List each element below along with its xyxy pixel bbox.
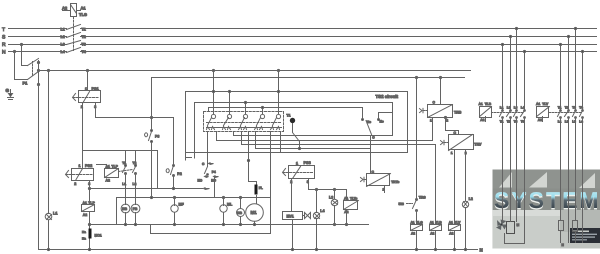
motor DB	[121, 204, 130, 224]
svg-text:TLP: TLP	[112, 165, 119, 169]
wire bus R	[9, 44, 597, 46]
svg-text:A2: A2	[449, 232, 453, 236]
junctions bottom rail N	[47, 248, 49, 250]
svg-text:1: 1	[451, 151, 453, 155]
logo watermark SYSTEM	[493, 170, 600, 249]
svg-text:2: 2	[74, 182, 76, 186]
svg-text:L3: L3	[61, 43, 65, 47]
wire strip descender 4 and run to TLB coil	[242, 132, 436, 225]
wire PS1 pin3 to P3/P2	[96, 104, 174, 165]
svg-text:T2: T2	[82, 35, 86, 39]
svg-text:L4: L4	[521, 106, 525, 110]
svg-text:TLP: TLP	[88, 201, 95, 205]
junctions motor box top	[150, 196, 152, 198]
lamp L4	[313, 190, 324, 250]
svg-text:T4: T4	[82, 50, 86, 54]
svg-text:A1: A1	[83, 201, 87, 205]
changeover switch TS2	[362, 113, 393, 149]
svg-text:A1: A1	[536, 102, 540, 106]
timer relay TRTs	[361, 149, 400, 193]
wire lamp L1 drop	[48, 71, 50, 250]
enclosure box motors	[117, 198, 271, 234]
wire TRS drop	[416, 78, 418, 199]
contactor TLV contact 1	[558, 43, 562, 220]
wire PS2 pin3	[89, 181, 91, 189]
svg-text:N: N	[480, 247, 483, 252]
svg-text:536: 536	[399, 202, 405, 206]
svg-text:PS2: PS2	[85, 164, 92, 168]
wire strip descender 6 and run to TRTs	[256, 132, 371, 149]
pressure switch PS1	[73, 71, 101, 109]
junctions on wire B	[415, 76, 417, 78]
svg-text:TLG: TLG	[79, 12, 87, 17]
svg-text:A1: A1	[344, 196, 348, 200]
svg-text:M: M	[517, 223, 520, 227]
svg-text:FL: FL	[259, 186, 263, 190]
svg-text:TLB: TLB	[436, 221, 443, 225]
terminal 4	[255, 114, 265, 129]
relay coil TLV bottom	[449, 151, 462, 250]
contactor TLG coil	[62, 4, 87, 18]
svg-text:TLTs: TLTs	[350, 196, 358, 200]
lamp L1	[45, 212, 57, 220]
svg-text:A2: A2	[538, 118, 542, 122]
svg-text:TLV: TLV	[542, 102, 549, 106]
svg-text:PS1: PS1	[92, 87, 99, 91]
svg-text:P3: P3	[155, 135, 159, 139]
svg-text:A1: A1	[479, 102, 483, 106]
wire drop to terminal 2	[229, 92, 231, 115]
wire route P2 bottom to P4	[158, 188, 203, 190]
contactor TLG contact pole L4-T4	[61, 48, 86, 55]
svg-text:L1: L1	[500, 106, 504, 110]
svg-text:SYSTEM: SYSTEM	[494, 187, 600, 213]
TS2 circuit box	[186, 92, 408, 153]
svg-text:MC1: MC1	[95, 233, 102, 237]
svg-text:T1: T1	[82, 27, 86, 31]
svg-text:NO: NO	[198, 179, 203, 183]
svg-text:DB: DB	[237, 211, 242, 215]
svg-text:ML: ML	[227, 203, 233, 207]
svg-text:EV1: EV1	[287, 215, 294, 219]
relay coil TLB bottom	[430, 221, 443, 250]
svg-text:L2: L2	[133, 182, 137, 186]
svg-text:L2: L2	[61, 35, 65, 39]
wire strip descender 5 to fuse FL	[249, 132, 257, 185]
svg-text:T3: T3	[82, 43, 86, 47]
svg-text:A1: A1	[430, 221, 434, 225]
svg-text:L3: L3	[514, 106, 518, 110]
svg-text:PS3: PS3	[304, 161, 311, 165]
junction on R	[20, 43, 22, 45]
wire drop to terminal 1	[213, 71, 215, 115]
svg-text:2: 2	[446, 119, 448, 123]
svg-text:TLB: TLB	[485, 102, 492, 106]
wire PS3 pin2 to EV1	[291, 179, 293, 212]
ground G	[6, 88, 14, 100]
wire PS1 pin2 down to PS2	[82, 104, 84, 169]
svg-text:A2: A2	[480, 118, 484, 122]
svg-text:T1: T1	[500, 119, 504, 123]
contactor TLV contact 2	[565, 35, 570, 242]
svg-text:TLV: TLV	[455, 221, 462, 225]
junction on N	[13, 50, 15, 52]
svg-text:Na: Na	[82, 230, 86, 234]
contactor TLV contact 4	[579, 50, 583, 242]
svg-text:1: 1	[79, 164, 81, 168]
mechanical link TLP aux	[119, 170, 133, 172]
contactor TLB coil	[479, 102, 492, 122]
buzzer MC1	[82, 229, 102, 241]
terminal 2	[223, 114, 232, 129]
svg-text:L2: L2	[507, 106, 511, 110]
junctions bottom rail	[124, 223, 126, 225]
svg-text:T1: T1	[122, 161, 126, 165]
svg-text:NC: NC	[211, 179, 216, 183]
timer contact TRS	[399, 195, 427, 224]
svg-text:P4: P4	[212, 170, 216, 174]
switch P3	[145, 130, 160, 143]
wire contact rail in strip	[207, 127, 282, 129]
contactor TLB contact 3	[514, 27, 518, 221]
svg-text:A2: A2	[106, 179, 110, 183]
svg-text:L1: L1	[558, 119, 562, 123]
wire bus S	[9, 36, 597, 38]
svg-text:L2: L2	[469, 197, 473, 201]
svg-text:C: C	[433, 100, 436, 104]
pressure switch PS2	[66, 164, 94, 186]
wire strip descender 1	[207, 132, 209, 167]
relay coil TLTs	[344, 190, 359, 225]
wire bottom rail N	[39, 249, 478, 251]
contactor contact T2-L2	[133, 151, 137, 205]
svg-text:L1: L1	[61, 27, 65, 31]
svg-text:A2: A2	[83, 213, 87, 217]
pressure switch PS3	[283, 161, 315, 184]
wire strip descender 7	[270, 132, 272, 234]
svg-text:A1: A1	[449, 221, 453, 225]
svg-text:MF: MF	[179, 203, 185, 207]
overload element 1	[559, 221, 564, 243]
wire P3 vertical	[151, 78, 153, 198]
svg-text:TLG: TLG	[416, 221, 423, 225]
contactor TLV contact 3	[572, 27, 576, 220]
svg-text:PB: PB	[133, 207, 138, 211]
wire long horizontal A	[39, 70, 471, 72]
motor DB small	[237, 198, 245, 225]
svg-text:L1: L1	[122, 182, 126, 186]
terminal 3	[239, 114, 248, 129]
wire P1 to bottom	[38, 61, 40, 250]
wire route around PS2 cluster	[83, 151, 158, 189]
motor ML	[220, 198, 233, 225]
relay contact TLP aux	[97, 165, 119, 183]
wire strip descender 3 and run	[234, 132, 393, 136]
motor M1	[246, 204, 264, 225]
svg-text:C: C	[202, 162, 205, 166]
lamp L2	[462, 151, 473, 250]
contactor TLB contact 2	[507, 35, 512, 221]
svg-text:S: S	[2, 34, 6, 40]
svg-text:L1: L1	[53, 212, 57, 216]
fan icon	[496, 220, 507, 231]
svg-text:No: No	[380, 120, 384, 124]
contactor contact T1-L1	[122, 151, 126, 205]
svg-text:T4: T4	[579, 106, 583, 110]
timer switch P4 cluster	[198, 162, 219, 197]
svg-text:R: R	[2, 42, 6, 48]
svg-text:A2: A2	[430, 232, 434, 236]
switch P1 blades	[28, 59, 39, 80]
svg-text:Na: Na	[82, 237, 86, 241]
svg-text:TRTs: TRTs	[391, 180, 399, 184]
svg-text:T2: T2	[565, 106, 569, 110]
svg-text:T: T	[2, 27, 5, 33]
wire U loop motor left	[505, 222, 525, 244]
svg-text:L4: L4	[61, 50, 65, 54]
motor box in logo	[507, 222, 515, 234]
svg-text:M1: M1	[251, 210, 258, 215]
svg-text:A2: A2	[411, 232, 415, 236]
svg-text:TRS: TRS	[419, 195, 427, 199]
wire strip descender 8	[280, 132, 282, 153]
switch P1 pole 2 feed	[15, 52, 28, 80]
solenoid valve EV1	[283, 212, 311, 250]
svg-text:A1: A1	[81, 6, 87, 11]
switch P1 contacts	[37, 61, 39, 63]
timer relay TRV	[441, 131, 483, 155]
wire bottom rail under motors	[90, 224, 369, 226]
wire drop to terminal 5	[278, 71, 280, 115]
wire long horizontal B	[152, 77, 465, 79]
switch P2	[166, 165, 182, 189]
timer relay TRB	[420, 78, 462, 135]
contactor TLG contact pole L1-T1	[61, 25, 86, 32]
svg-text:T1: T1	[287, 114, 291, 118]
svg-text:TRB: TRB	[454, 110, 462, 114]
svg-text:T3: T3	[572, 106, 576, 110]
svg-text:L4: L4	[320, 209, 324, 213]
svg-text:1: 1	[296, 162, 298, 166]
fuse FL	[255, 185, 263, 204]
motor MF	[171, 198, 185, 225]
wire drop to terminal 3	[245, 103, 247, 115]
svg-text:1: 1	[85, 87, 87, 91]
relay coil TLG bottom	[411, 221, 424, 250]
inner box 3	[209, 108, 363, 119]
overload element 2	[573, 221, 578, 243]
svg-text:P1: P1	[23, 81, 29, 86]
svg-text:A1: A1	[106, 165, 110, 169]
wire bus T	[9, 28, 597, 30]
svg-text:A1: A1	[411, 221, 415, 225]
wire stubs below TS2 left	[186, 153, 195, 161]
wire bus N	[9, 51, 597, 53]
relay coil TLP	[82, 189, 96, 250]
svg-text:T2: T2	[133, 161, 137, 165]
mechanical link TLB	[492, 112, 525, 114]
switch P1 pole 1 feed	[22, 45, 28, 66]
svg-text:P2: P2	[177, 172, 181, 176]
svg-text:TRV: TRV	[474, 142, 482, 146]
wire PS3 pin3 run	[309, 179, 347, 190]
contactor TLB contact 4	[521, 50, 526, 221]
terminal strip TS1 dashed box	[204, 112, 284, 132]
svg-text:G: G	[6, 88, 10, 93]
svg-text:N: N	[2, 50, 6, 56]
contactor TLG contact pole L3-T3	[61, 41, 86, 47]
inner box 2	[195, 103, 393, 153]
svg-text:C: C	[372, 136, 375, 140]
svg-text:T1: T1	[558, 106, 562, 110]
lamp L3	[329, 190, 338, 225]
mechanical link TLG	[73, 17, 75, 51]
wire drop to terminal 4	[262, 108, 264, 115]
svg-text:T3: T3	[514, 119, 518, 123]
contactor TLV coil	[536, 102, 550, 122]
contactor TLG contact pole L2-T2	[61, 33, 86, 39]
node T1	[287, 114, 300, 149]
terminal 1	[207, 114, 216, 129]
junctions on wire A	[47, 69, 49, 71]
svg-text:L3: L3	[329, 196, 333, 200]
svg-text:2: 2	[465, 151, 467, 155]
svg-text:1: 1	[430, 119, 432, 123]
svg-text:TS2 circuit: TS2 circuit	[376, 94, 399, 99]
mechanical link TLV	[550, 112, 583, 114]
terminal 5	[271, 114, 281, 129]
svg-text:DB: DB	[122, 207, 127, 211]
wire strip descender 2 and run to TRB pin1	[217, 118, 433, 141]
junction TLP bottom	[88, 223, 90, 225]
mechanical link terminals	[207, 122, 282, 124]
contactor TLB contact 1	[500, 43, 504, 221]
mechanical link P1	[32, 62, 34, 77]
motor PB	[131, 204, 140, 224]
svg-text:A2: A2	[62, 6, 68, 11]
